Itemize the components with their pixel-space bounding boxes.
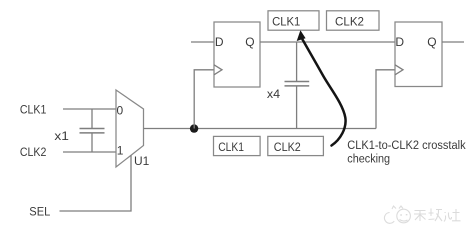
annotation text: crosstalk checking [347,138,466,166]
wire CLK2 to mux input 1 [63,151,116,153]
svg-text:Q: Q [427,35,436,49]
svg-text:CLK2: CLK2 [335,15,364,29]
svg-text:Q: Q [245,35,254,49]
svg-text:D: D [215,35,224,49]
wire mux output [144,128,195,130]
flip-flop U2 body [214,22,260,87]
wire flip-flop 2 Q output stub [442,41,464,43]
wire to flip-flop 2 clock pin [376,70,395,129]
wire flip-flop 1 D input stub [191,41,214,43]
annotation arrow (crosstalk pointer) [297,30,346,145]
svg-text:D: D [395,35,404,49]
wire flip-flop1 Q to flip-flop2 D [260,41,395,43]
mux U1 body [116,90,144,167]
svg-text:CLK1: CLK1 [218,140,244,154]
node label box CLK1 (top, launch domain) [268,11,319,30]
watermark text (dongpo jushi) [414,209,461,222]
svg-text:CLK1: CLK1 [272,14,300,28]
svg-text:checking: checking [347,152,390,166]
wire to flip-flop 1 clock pin [194,70,214,129]
node label box CLK1 (bottom, mux output domain) [214,136,261,155]
flip-flop U3 body [395,22,442,87]
svg-text:0: 0 [117,104,124,118]
flip-flop U2 clock triangle [214,65,222,75]
svg-text:U1: U1 [134,154,150,168]
svg-text:x4: x4 [267,87,280,101]
node label box CLK2 (bottom) [268,136,324,155]
svg-text:CLK2: CLK2 [20,145,47,159]
svg-text:x1: x1 [54,129,69,143]
svg-text:CLK2: CLK2 [274,140,301,154]
svg-text:SEL: SEL [29,204,50,218]
wire clock distribution bottom rail [194,128,376,130]
svg-text:CLK1-to-CLK2 crosstalk: CLK1-to-CLK2 crosstalk [347,138,466,152]
flip-flop U3 clock triangle [395,65,403,75]
capacitor C2 (x4 coupling cap) [285,42,310,129]
wire SEL to mux select [60,155,132,211]
wire CLK1 to mux input 0 [63,108,116,110]
svg-text:CLK1: CLK1 [20,102,47,116]
junction dot (node CLKOUT) [190,124,198,132]
watermark icon (cat logo) [384,206,410,223]
node label box CLK2 (top) [327,11,380,30]
svg-text:1: 1 [117,144,124,158]
capacitor C1 (x1 coupling cap) [80,109,105,152]
